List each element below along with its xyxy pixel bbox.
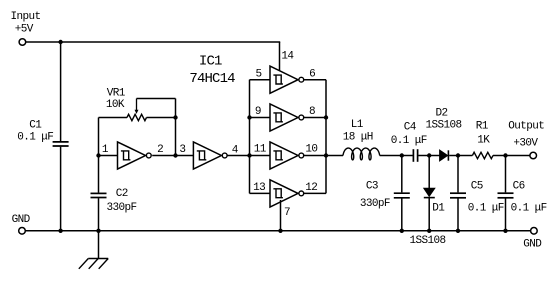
capacitor C6 label	[511, 181, 547, 215]
wire D1 bottom	[428, 198, 430, 231]
inverter IC1b	[193, 142, 227, 169]
diode D1	[424, 188, 435, 197]
wire VR1 left drop	[98, 118, 100, 193]
output terminal label	[508, 121, 544, 150]
svg-text:1K: 1K	[477, 135, 490, 147]
GND right terminal	[531, 228, 538, 235]
wire C6 top	[505, 156, 507, 193]
node D	[503, 153, 507, 157]
pin 4 label	[232, 144, 239, 156]
wire pin14 drop	[279, 42, 281, 72]
svg-text:Input: Input	[11, 11, 41, 23]
pin 14 label	[281, 50, 294, 62]
node left bus row2	[247, 115, 251, 119]
diode D2 label	[426, 108, 462, 132]
pin 11 label	[254, 144, 267, 156]
capacitor C1 label	[17, 119, 53, 143]
svg-text:IC1: IC1	[199, 53, 222, 69]
svg-text:1: 1	[102, 144, 109, 156]
pin 13 label	[253, 182, 265, 194]
GND right terminal label	[523, 239, 542, 251]
wire L1 to nodeA	[380, 155, 402, 157]
wire bank row2 input	[250, 117, 271, 119]
wire node to inverter2	[176, 155, 194, 157]
node C	[456, 153, 460, 157]
svg-text:D1: D1	[432, 202, 445, 214]
svg-text:4: 4	[232, 144, 239, 156]
svg-text:0.1 μF: 0.1 μF	[391, 135, 427, 147]
svg-text:0.1 μF: 0.1 μF	[17, 131, 53, 143]
pin 3 label	[179, 144, 185, 156]
wire C2 bottom	[98, 198, 100, 231]
svg-text:18 μH: 18 μH	[343, 132, 373, 144]
svg-text:8: 8	[309, 106, 315, 118]
wire C1 top	[60, 42, 62, 141]
svg-text:5: 5	[256, 68, 262, 80]
wire bank row3 input	[250, 155, 271, 157]
inverter IC1 row2	[270, 104, 304, 131]
node rail / C1	[58, 229, 62, 233]
GND left terminal label	[12, 214, 31, 226]
svg-text:14: 14	[281, 50, 294, 62]
svg-text:C5: C5	[471, 181, 483, 193]
svg-text:C4: C4	[404, 122, 417, 134]
node rail / C6	[503, 229, 507, 233]
wire +5V top rail	[26, 41, 281, 43]
wire bank row2 output	[303, 117, 326, 119]
node rail / C5	[456, 229, 460, 233]
wire nodeA to C4	[402, 155, 413, 157]
node right bus row3	[324, 153, 328, 157]
node B	[427, 153, 431, 157]
svg-text:+5V: +5V	[15, 23, 34, 35]
node rail / C2	[96, 229, 100, 233]
svg-text:R1: R1	[476, 121, 489, 133]
wire pin7 drop	[280, 200, 282, 231]
pin 10 label	[305, 144, 317, 156]
wire VR1 wiper top	[137, 98, 176, 100]
capacitor C6	[498, 193, 514, 198]
wire GND bottom rail	[25, 230, 530, 232]
wire D1 top	[428, 156, 430, 189]
node right bus row2	[324, 115, 328, 119]
wire feedback drop to node 2-3	[175, 118, 177, 156]
wire bank row1 input	[250, 79, 271, 81]
diode D2	[440, 150, 449, 161]
wire C5 top	[457, 156, 459, 193]
wire R1 to nodeD	[493, 155, 506, 157]
wire C3 top	[401, 156, 403, 193]
wire VR1 left lead	[99, 117, 128, 119]
svg-text:C3: C3	[366, 180, 378, 192]
svg-text:330pF: 330pF	[360, 198, 390, 210]
svg-text:1SS108: 1SS108	[410, 235, 446, 247]
diode D1 part number	[410, 235, 446, 247]
svg-text:0.1 μF: 0.1 μF	[511, 203, 547, 215]
pin 2 label	[157, 144, 163, 156]
svg-text:10: 10	[305, 144, 317, 156]
wire left bus	[249, 80, 251, 194]
input terminal label	[11, 11, 41, 35]
wire C3 bottom	[401, 199, 403, 231]
inverter IC1 row1	[270, 66, 304, 93]
wire C1 bottom	[60, 147, 62, 231]
wire D2 to nodeC	[449, 155, 458, 157]
svg-text:0.1 μF: 0.1 μF	[468, 203, 504, 215]
svg-text:6: 6	[309, 68, 315, 80]
input terminal	[19, 39, 26, 46]
svg-text:C6: C6	[513, 181, 525, 193]
svg-text:+30V: +30V	[513, 137, 538, 149]
capacitor C2 label	[107, 188, 137, 214]
inverter IC1 row4	[270, 180, 304, 207]
node pins 2-3	[173, 153, 177, 157]
wire bank row1 output	[303, 79, 326, 81]
pin 6 label	[309, 68, 315, 80]
wire bus to L1	[326, 155, 343, 157]
svg-text:Output: Output	[508, 121, 544, 133]
wire C4 to nodeB	[418, 155, 429, 157]
pin 8 label	[309, 106, 315, 118]
wire C5 bottom	[457, 199, 459, 231]
pin 7 label	[284, 207, 290, 219]
svg-text:11: 11	[254, 144, 267, 156]
capacitor C4	[413, 149, 417, 162]
svg-text:10K: 10K	[106, 99, 125, 111]
svg-text:13: 13	[253, 182, 265, 194]
svg-text:D2: D2	[436, 108, 448, 120]
svg-text:C2: C2	[116, 188, 128, 200]
potentiometer VR1 label	[106, 87, 126, 111]
svg-text:L1: L1	[351, 119, 364, 131]
wire VR1 right drop	[175, 99, 177, 118]
capacitor C3	[394, 193, 410, 198]
diode D1 label	[432, 202, 445, 214]
wire bank row4 output	[303, 192, 326, 194]
svg-text:1SS108: 1SS108	[426, 120, 462, 132]
resistor R1 body	[472, 152, 493, 158]
capacitor C3 label	[360, 180, 390, 210]
node pin1	[96, 153, 100, 157]
IC1 label	[189, 53, 235, 87]
inductor L1	[343, 148, 380, 160]
wire C6 bottom	[505, 199, 507, 231]
VR1 wiper arrow	[135, 99, 139, 114]
pin 1 label	[102, 144, 109, 156]
output terminal	[530, 152, 537, 159]
node rail / D1	[427, 229, 431, 233]
svg-text:330pF: 330pF	[107, 202, 137, 214]
node rail / C3	[400, 229, 404, 233]
wire nodeB to D2	[429, 155, 439, 157]
ground symbol	[79, 231, 108, 269]
wire nodeC to R1	[458, 155, 472, 157]
pin 12 label	[305, 182, 317, 194]
capacitor C5 label	[468, 181, 504, 215]
svg-text:C1: C1	[29, 119, 42, 131]
node VR1 / feedback	[173, 115, 177, 119]
inductor L1 label	[343, 119, 373, 144]
svg-text:74HC14: 74HC14	[189, 71, 235, 87]
wire pin1 to inverter	[99, 155, 118, 157]
svg-text:2: 2	[157, 144, 163, 156]
wire right bus	[325, 80, 327, 194]
resistor R1 label	[476, 121, 490, 147]
svg-text:VR1: VR1	[107, 87, 126, 99]
svg-text:9: 9	[255, 106, 261, 118]
wire VR1 right lead	[147, 117, 176, 119]
node pin4 / bus	[247, 153, 251, 157]
capacitor C5	[450, 193, 466, 198]
capacitor C1	[53, 142, 69, 146]
svg-text:7: 7	[284, 207, 290, 219]
wire bank row3 output	[303, 155, 326, 157]
node rail / pin7	[278, 229, 282, 233]
pin 5 label	[256, 68, 262, 80]
wire inverter2 out	[228, 155, 250, 157]
svg-text:GND: GND	[12, 214, 31, 226]
node top rail / C1	[58, 40, 62, 44]
svg-text:3: 3	[179, 144, 185, 156]
node A	[400, 153, 404, 157]
GND left terminal	[19, 228, 26, 235]
resistor VR1 body	[127, 114, 147, 120]
wire inverter1 out	[152, 155, 175, 157]
wire nodeD to output	[506, 155, 530, 157]
capacitor C2	[91, 193, 107, 197]
inverter IC1 row3	[270, 142, 304, 169]
op-amp inverter IC1a	[118, 142, 152, 169]
wire bank row4 input	[250, 192, 271, 194]
svg-text:GND: GND	[523, 239, 542, 251]
svg-text:12: 12	[305, 182, 317, 194]
pin 9 label	[255, 106, 261, 118]
capacitor C4 label	[391, 122, 427, 148]
